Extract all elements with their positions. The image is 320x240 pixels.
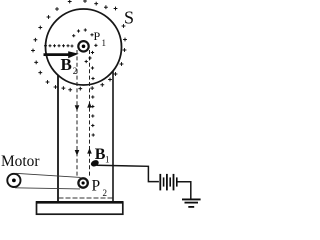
svg-text:2: 2	[73, 66, 78, 76]
svg-text:P: P	[94, 29, 101, 43]
svg-text:S: S	[124, 7, 134, 27]
svg-text:B: B	[61, 55, 72, 74]
svg-text:P: P	[92, 178, 101, 195]
svg-text:2: 2	[103, 188, 108, 198]
svg-text:Motor: Motor	[1, 153, 39, 170]
svg-text:1: 1	[102, 38, 107, 48]
svg-text:1: 1	[105, 155, 110, 165]
